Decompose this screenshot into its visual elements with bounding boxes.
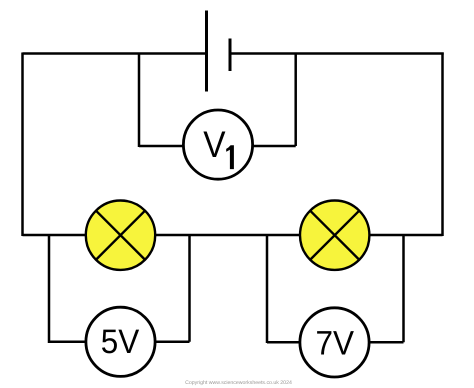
battery B1 positive plate (long line): [205, 11, 208, 92]
svg-text:Copyright www.scienceworksheet: Copyright www.scienceworksheets.co.uk 20…: [185, 380, 292, 386]
wire: voltmeter V1 branch left vertical drop from top rail: [138, 54, 141, 148]
lamp L1 (left bulb): [86, 201, 155, 270]
wire: voltmeter V1 branch right vertical up to top rail: [294, 54, 297, 147]
wire: 7V meter branch left vertical drop: [266, 235, 269, 343]
wire: right vertical rail: [441, 53, 444, 237]
wire: 5V meter branch left horizontal into meter: [49, 341, 86, 344]
wire: 5V meter branch right vertical up to lamp row: [188, 235, 191, 342]
battery B1 negative plate (short line): [229, 39, 232, 72]
svg-text:7V: 7V: [316, 324, 355, 362]
wire: left vertical rail: [21, 53, 24, 237]
svg-text:5V: 5V: [101, 323, 140, 361]
wire: 7V meter branch right horizontal out of meter: [369, 341, 404, 344]
voltmeter M1 (5V) circle and label: [86, 307, 155, 376]
svg-text:V: V: [203, 124, 226, 165]
wire: 5V meter branch left vertical drop: [48, 235, 51, 343]
wire: 5V meter branch right horizontal out of meter: [155, 341, 190, 344]
lamp L2 (right bulb): [300, 201, 369, 270]
wire: 7V meter branch left horizontal into meter: [267, 341, 300, 344]
wire: voltmeter V1 branch left horizontal into V1: [139, 145, 184, 148]
wire: 7V meter branch right vertical up to lamp row: [402, 235, 405, 342]
wire: voltmeter V1 branch right horizontal out of V1: [252, 145, 296, 148]
wire: top rail right segment (battery negative plate to right corner): [230, 52, 444, 55]
voltmeter M2 (7V) circle and label: [300, 308, 369, 377]
wire: top rail left segment (left corner to battery positive plate): [23, 52, 207, 55]
wire: lamp row horizontal rail: [23, 234, 443, 237]
voltmeter U1 (V1) circle and label: [183, 110, 252, 179]
